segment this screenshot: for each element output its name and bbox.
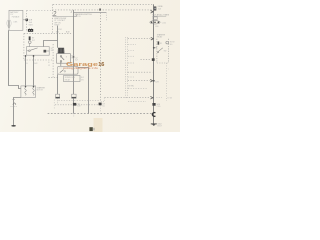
wire ST down x57: [57, 26, 59, 48]
dotted x100 end blob: [99, 103, 102, 106]
battery main feed wire: [9, 30, 21, 88]
wire battery to connector pin: [23, 19, 26, 21]
svg-text:TO ST: TO ST: [170, 42, 175, 44]
long dashed row y113.4: [48, 113, 152, 115]
relay switch arm: [158, 48, 163, 52]
chevron into line y38.6: [151, 37, 154, 40]
dashed box bottom row y33: [24, 32, 73, 34]
fusible link conductor: [8, 20, 10, 28]
branch into relay box: [154, 47, 157, 49]
wire x57 down to ground block: [57, 74, 59, 94]
starter coil squiggle left: [25, 88, 27, 96]
ignition switch box (left inner): [53, 15, 76, 17]
svg-text:ST REL: ST REL: [128, 86, 134, 88]
interlock inner dashes: [60, 67, 75, 69]
stub wire row y88.5: [128, 88, 148, 90]
dashed row y80.7 + chevron: [128, 80, 150, 82]
chevron into line y11.8: [151, 11, 154, 14]
wire from interlock to x88 line: [78, 68, 89, 114]
svg-text:C101: C101: [58, 29, 62, 31]
stub wire row y77: [128, 76, 134, 78]
battery box B1: [9, 10, 23, 30]
svg-text:FUSIBLE: FUSIBLE: [12, 16, 20, 18]
starter motor box: [21, 86, 36, 97]
dashed row y38.6: [128, 38, 151, 40]
main right line: [153, 4, 155, 124]
relay dashed box left: [23, 33, 25, 60]
dotted drop below left block: [57, 98, 59, 103]
svg-text:2: 2: [128, 88, 129, 90]
x74 dots below long row: [73, 113, 75, 116]
dashed box left edge x52: [51, 4, 53, 33]
switch lower contact: [60, 61, 62, 63]
wire below right block: [73, 98, 75, 113]
dashed harness vertical x27: [26, 10, 28, 32]
dashed row y59.6 + blob: [141, 59, 151, 61]
relay contact arm: [30, 48, 37, 50]
dashed bottom y77: [49, 76, 59, 78]
dashed row y72.2: [128, 71, 153, 73]
dashed harness row y10 left faint: [27, 9, 53, 11]
dashed box top row y4: [53, 3, 154, 5]
svg-text:B-W: B-W: [155, 82, 159, 84]
connector pin C1: [26, 19, 28, 22]
relay coil: [29, 36, 31, 40]
clutch switch connector (trapezoid): [58, 48, 65, 54]
svg-text:R1: R1: [160, 43, 162, 45]
svg-text:16: 16: [98, 62, 104, 68]
svg-text:L: L: [168, 68, 169, 70]
faint dashed edge x54 bottom: [53, 100, 55, 110]
ground block right: [72, 94, 77, 98]
relay coil bar: [158, 41, 160, 44]
svg-text:START: START: [54, 24, 59, 27]
relay dashed box right: [157, 39, 169, 63]
body ground arch: [13, 103, 16, 105]
stub wire row y50.4: [128, 49, 135, 51]
wire coil to contact box: [29, 44, 31, 47]
ground block left: [56, 94, 60, 98]
svg-text:B-W: B-W: [66, 31, 70, 33]
starter coil squiggle right: [33, 88, 35, 96]
relay contact terminal: [44, 50, 47, 53]
connector dot on x74: [73, 56, 75, 58]
svg-text:G202: G202: [157, 124, 161, 126]
relay circle: [166, 41, 169, 44]
stub wire row y44.6: [128, 44, 136, 46]
ground label dashes: [11, 106, 17, 108]
connector blob on x74: [73, 103, 76, 106]
double dotted vertical x126: [125, 37, 127, 97]
dashed row y101.5 right: [128, 101, 146, 103]
dotted vertical x166: [166, 63, 168, 101]
svg-text:KEY IN: KEY IN: [75, 16, 82, 18]
relay contact: lead: [27, 50, 29, 52]
svg-text:TO 1B: TO 1B: [167, 97, 172, 99]
relay contact box: [27, 47, 50, 56]
node S tick on y10 row: [99, 9, 101, 11]
wire switch to interlock box: [60, 62, 62, 66]
relay connector block: [28, 29, 33, 32]
interlock switch arm: [60, 70, 64, 73]
connector oval: [150, 21, 160, 24]
svg-text:wiring diagrams info: wiring diagrams info: [63, 66, 99, 70]
dashed box row y10: [52, 9, 151, 11]
interlock box rounded: [58, 66, 79, 74]
fusible link F1: [6, 20, 9, 27]
ground G1 bar: [11, 125, 16, 127]
wire x74 down: [73, 10, 75, 94]
ignition switch box: [57, 54, 71, 64]
small rect on line: [153, 17, 157, 20]
stub wire row y63: [128, 62, 135, 64]
connector on main line y104: [152, 103, 155, 106]
wires relay to starter: [25, 55, 27, 86]
svg-text:B-L: B-L: [102, 106, 105, 108]
stub wire row y56.2: [128, 55, 135, 57]
svg-text:C205: C205: [157, 106, 161, 108]
svg-text:RELAY: RELAY: [157, 36, 163, 39]
middle dashed edge x53: [52, 44, 54, 77]
grommet C at y114: [152, 113, 155, 117]
corner dashes near x104: [103, 98, 105, 102]
svg-text:C100: C100: [162, 22, 166, 24]
fuse F2: [154, 7, 157, 11]
dashed row between ground blocks y100.6: [59, 100, 100, 102]
svg-text:B-W: B-W: [77, 106, 81, 108]
branch wire to relay contact: [44, 41, 58, 47]
svg-text:ST: ST: [51, 48, 53, 50]
relay lamp circle: [29, 41, 32, 44]
dashed row y104.8: [55, 104, 100, 106]
center dotted line x100: [100, 10, 102, 102]
switch arm: [61, 57, 64, 60]
switch pivot: [60, 56, 62, 58]
svg-text:MOTOR: MOTOR: [37, 90, 44, 92]
ground wire from starter: [14, 98, 21, 126]
page number: [89, 127, 92, 131]
dashed row y97.7 + chevron: [105, 97, 151, 99]
relay box 2: [64, 76, 81, 82]
svg-text:SW: SW: [164, 51, 167, 53]
svg-text:RELAY: RELAY: [65, 78, 71, 81]
relay contact pivot: [29, 50, 31, 52]
ground G2: [151, 123, 157, 125]
key warning box (right inner): [73, 12, 106, 14]
tick on ground wire: [12, 99, 15, 101]
